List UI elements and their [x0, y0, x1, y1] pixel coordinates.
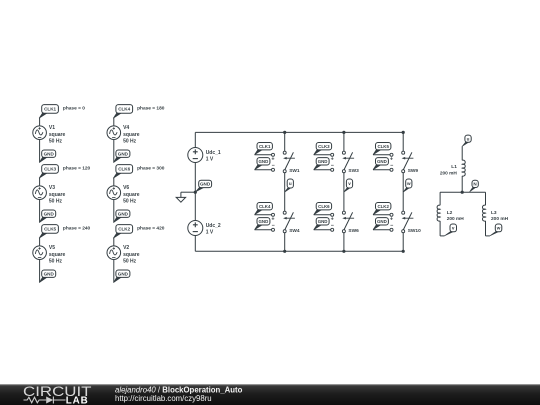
- inductor L3: [482, 205, 485, 221]
- wire: [39, 140, 41, 163]
- svg-text:50 Hz: 50 Hz: [123, 139, 137, 145]
- junction: [342, 250, 345, 253]
- switch SW4: [283, 211, 295, 233]
- net flag CLK4: [113, 105, 132, 119]
- net flag GND: [314, 218, 329, 230]
- svg-text:GND: GND: [318, 219, 328, 224]
- inductor L2: [437, 205, 440, 221]
- wire top rail: [195, 131, 403, 133]
- wire: [314, 214, 331, 216]
- switch SW9: [402, 151, 414, 173]
- wire: [402, 233, 404, 252]
- value label Udc_2 1 V: [206, 223, 221, 236]
- wire: [284, 233, 286, 252]
- svg-text:square: square: [123, 192, 140, 198]
- pin -: [331, 223, 334, 231]
- wire: [373, 154, 390, 156]
- svg-text:GND: GND: [200, 182, 211, 187]
- svg-text:u: u: [289, 181, 292, 186]
- ground flag GND: [113, 270, 129, 283]
- inductor L1: [462, 160, 465, 176]
- svg-text:SW6: SW6: [348, 228, 359, 234]
- value label V5 square 50 Hz: [49, 245, 66, 265]
- wire: [373, 229, 390, 231]
- voltage source V1: [33, 126, 47, 140]
- wire: [39, 238, 41, 246]
- net flag CLK2: [373, 203, 391, 215]
- svg-text:CLK5: CLK5: [377, 144, 389, 149]
- ground flag GND: [113, 210, 129, 223]
- net flag GND: [196, 180, 212, 192]
- svg-text:−: −: [390, 223, 393, 229]
- svg-text:L2: L2: [447, 210, 453, 216]
- pin -: [272, 223, 275, 231]
- svg-text:CLK4: CLK4: [259, 204, 271, 209]
- svg-text:+: +: [331, 217, 334, 223]
- svg-text:+: +: [331, 157, 334, 163]
- pin -: [331, 163, 334, 171]
- svg-text:200 mH: 200 mH: [447, 216, 465, 222]
- pin -: [390, 223, 393, 231]
- svg-text:CLK5: CLK5: [44, 227, 56, 232]
- svg-text:Udc_2: Udc_2: [206, 223, 221, 229]
- svg-text:CLK2: CLK2: [377, 204, 389, 209]
- svg-text:CLK1: CLK1: [44, 107, 56, 112]
- voltage source V4: [107, 126, 121, 140]
- svg-text:http://circuitlab.com/czy98ru: http://circuitlab.com/czy98ru: [115, 394, 212, 403]
- svg-text:50 Hz: 50 Hz: [123, 259, 137, 265]
- wire: [485, 221, 487, 236]
- svg-text:1 V: 1 V: [206, 230, 214, 236]
- svg-text:50 Hz: 50 Hz: [49, 199, 63, 205]
- wire: [113, 260, 115, 283]
- wire: [314, 229, 331, 231]
- svg-text:V5: V5: [49, 245, 55, 251]
- svg-text:GND: GND: [118, 211, 129, 216]
- svg-text:GND: GND: [44, 271, 55, 276]
- voltage source V2: [107, 246, 121, 260]
- svg-text:L1: L1: [451, 164, 457, 170]
- net flag GND: [255, 158, 270, 170]
- net flag v: [344, 179, 353, 192]
- net flag N: [470, 180, 479, 192]
- svg-text:V6: V6: [123, 185, 129, 191]
- svg-text:−: −: [331, 223, 334, 229]
- value label V4 square 50 Hz: [123, 125, 140, 145]
- net flag w: [490, 224, 502, 236]
- svg-text:200 mH: 200 mH: [491, 216, 509, 222]
- svg-text:V1: V1: [49, 125, 55, 131]
- value label L1 200 mH: [440, 164, 458, 177]
- svg-text:+: +: [271, 157, 274, 163]
- svg-text:phase = 300: phase = 300: [137, 165, 165, 171]
- switch SW1: [283, 151, 295, 173]
- voltage source Udc_2: [188, 221, 203, 236]
- svg-text:CLK6: CLK6: [118, 167, 130, 172]
- net flag GND: [373, 158, 388, 170]
- wire: [314, 154, 331, 156]
- svg-text:SW1: SW1: [289, 168, 300, 174]
- svg-text:v: v: [452, 226, 455, 231]
- pin +: [331, 213, 334, 222]
- svg-text:phase = 0: phase = 0: [63, 105, 85, 111]
- junction: [342, 131, 345, 134]
- wire: [373, 214, 390, 216]
- wire: [402, 173, 404, 212]
- svg-text:SW3: SW3: [348, 168, 359, 174]
- junction: [402, 131, 405, 134]
- wire: [461, 176, 463, 192]
- svg-text:GND: GND: [118, 271, 129, 276]
- switch SW3: [342, 151, 354, 173]
- pin +: [271, 153, 274, 162]
- svg-text:GND: GND: [318, 159, 328, 164]
- svg-text:+: +: [390, 157, 393, 163]
- value label L2 200 mH: [447, 210, 465, 222]
- svg-text:V4: V4: [123, 125, 129, 131]
- junction: [194, 191, 197, 194]
- svg-text:u: u: [467, 136, 470, 141]
- wire: [39, 178, 41, 186]
- net flag v: [444, 224, 456, 236]
- svg-text:GND: GND: [377, 219, 387, 224]
- svg-text:GND: GND: [44, 151, 55, 156]
- svg-text:1 V: 1 V: [206, 157, 214, 163]
- wire: [440, 191, 485, 193]
- svg-text:square: square: [49, 132, 66, 138]
- svg-text:CLK3: CLK3: [44, 167, 56, 172]
- wire: [39, 260, 41, 283]
- CircuitLab logo resistor-diode glyph: [24, 397, 66, 404]
- wire: [439, 221, 441, 236]
- net flag CLK1: [39, 105, 58, 119]
- svg-text:L3: L3: [491, 210, 497, 216]
- switch SW10: [402, 211, 414, 233]
- wire bottom rail: [195, 250, 403, 252]
- voltage source V3: [33, 186, 47, 200]
- pin +: [390, 213, 393, 222]
- value label V1 square 50 Hz: [49, 125, 66, 145]
- svg-text:CLK6: CLK6: [318, 204, 330, 209]
- net flag w: [403, 179, 412, 192]
- ground flag GND: [39, 270, 56, 283]
- net flag u: [462, 135, 471, 146]
- svg-text:+: +: [271, 217, 274, 223]
- svg-text:w: w: [496, 226, 501, 231]
- pin +: [271, 213, 274, 222]
- net flag GND: [255, 218, 270, 230]
- ground flag GND: [39, 150, 56, 163]
- net flag CLK4: [255, 203, 273, 215]
- pin -: [390, 163, 393, 171]
- svg-text:GND: GND: [118, 151, 129, 156]
- wire: [113, 238, 115, 246]
- ground flag GND: [39, 210, 56, 223]
- svg-text:GND: GND: [259, 159, 269, 164]
- svg-text:−: −: [272, 163, 275, 169]
- wire: [284, 132, 286, 151]
- wire: [113, 178, 115, 186]
- switch SW6: [342, 211, 354, 233]
- svg-text:50 Hz: 50 Hz: [49, 259, 63, 265]
- svg-text:+: +: [390, 217, 393, 223]
- net flag CLK3: [314, 143, 332, 155]
- junction: [402, 250, 405, 253]
- wire: [373, 169, 390, 171]
- svg-text:SW9: SW9: [408, 168, 419, 174]
- wire: [39, 118, 41, 126]
- svg-text:phase = 240: phase = 240: [63, 225, 91, 231]
- wire: [439, 192, 441, 205]
- net flag CLK2: [113, 225, 132, 239]
- svg-text:SW4: SW4: [289, 228, 300, 234]
- wire: [113, 118, 115, 126]
- value label V2 square 50 Hz: [123, 245, 140, 265]
- wire: [194, 163, 196, 221]
- ground: [176, 192, 195, 202]
- voltage source V5: [33, 246, 47, 260]
- svg-text:CLK3: CLK3: [318, 144, 330, 149]
- wire: [255, 154, 272, 156]
- svg-text:Udc_1: Udc_1: [206, 150, 221, 156]
- svg-text:square: square: [123, 132, 140, 138]
- wire: [113, 140, 115, 163]
- net flag CLK1: [255, 143, 273, 155]
- svg-text:phase = 120: phase = 120: [63, 165, 91, 171]
- value label Udc_1 1 V: [206, 150, 221, 163]
- svg-text:SW10: SW10: [408, 228, 421, 234]
- svg-text:GND: GND: [44, 211, 55, 216]
- wire: [485, 192, 487, 205]
- svg-text:CLK4: CLK4: [118, 107, 130, 112]
- pin +: [390, 153, 393, 162]
- net flag CLK3: [39, 165, 58, 179]
- wire: [194, 132, 196, 147]
- wire: [194, 236, 196, 252]
- wire: [255, 214, 272, 216]
- wire: [461, 146, 463, 160]
- wire: [39, 200, 41, 223]
- svg-text:−: −: [331, 163, 334, 169]
- wire: [113, 200, 115, 223]
- svg-text:CLK2: CLK2: [118, 227, 130, 232]
- net flag u: [285, 179, 294, 192]
- net flag CLK6: [314, 203, 332, 215]
- wire: [314, 169, 331, 171]
- junction: [283, 250, 286, 253]
- wire: [343, 233, 345, 252]
- pin -: [272, 163, 275, 171]
- footer bar: [0, 384, 540, 405]
- net flag CLK5: [373, 143, 391, 155]
- svg-text:GND: GND: [259, 219, 269, 224]
- svg-text:200 mH: 200 mH: [440, 170, 458, 176]
- value label V3 square 50 Hz: [49, 185, 66, 205]
- svg-text:50 Hz: 50 Hz: [49, 139, 63, 145]
- svg-text:square: square: [49, 252, 66, 258]
- svg-text:V3: V3: [49, 185, 55, 191]
- wire: [343, 132, 345, 151]
- ground flag GND: [113, 150, 129, 163]
- wire: [255, 169, 272, 171]
- pin +: [331, 153, 334, 162]
- junction: [283, 131, 286, 134]
- svg-text:−: −: [272, 223, 275, 229]
- svg-text:LAB: LAB: [66, 395, 89, 405]
- voltage source Udc_1: [188, 148, 203, 163]
- svg-text:V2: V2: [123, 245, 129, 251]
- net flag CLK5: [39, 225, 58, 239]
- svg-text:square: square: [49, 192, 66, 198]
- svg-text:w: w: [406, 181, 411, 186]
- wire: [343, 173, 345, 212]
- value label V6 square 50 Hz: [123, 185, 140, 205]
- net flag CLK6: [113, 165, 132, 179]
- svg-text:50 Hz: 50 Hz: [123, 199, 137, 205]
- wire: [255, 229, 272, 231]
- svg-text:−: −: [390, 163, 393, 169]
- svg-text:v: v: [348, 181, 351, 186]
- net flag GND: [373, 218, 388, 230]
- svg-text:phase = 180: phase = 180: [137, 105, 165, 111]
- wire: [284, 173, 286, 212]
- svg-text:phase = 420: phase = 420: [137, 225, 165, 231]
- svg-text:square: square: [123, 252, 140, 258]
- junction node N: [461, 191, 464, 194]
- value label L3 200 mH: [491, 210, 509, 222]
- svg-text:GND: GND: [377, 159, 387, 164]
- wire: [402, 132, 404, 151]
- net flag GND: [314, 158, 329, 170]
- svg-text:CLK1: CLK1: [259, 144, 271, 149]
- voltage source V6: [107, 186, 121, 200]
